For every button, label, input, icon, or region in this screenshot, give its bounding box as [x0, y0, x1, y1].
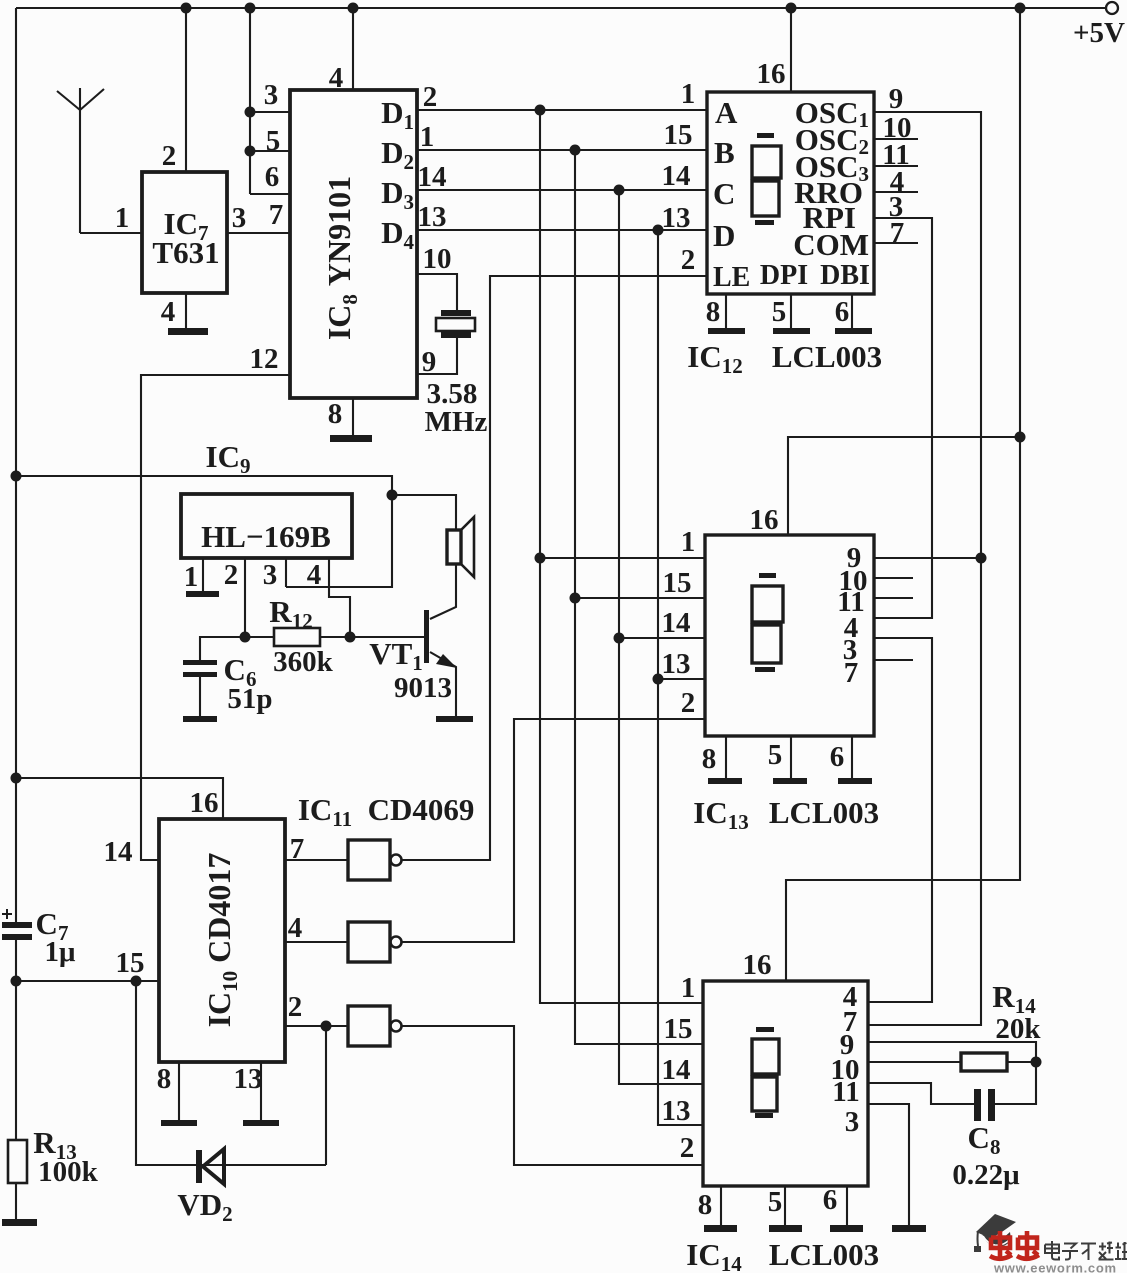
svg-text:9: 9 [422, 346, 437, 378]
svg-text:15: 15 [664, 119, 693, 151]
svg-text:8: 8 [157, 1063, 172, 1095]
svg-text:3: 3 [232, 202, 247, 234]
svg-text:MHz: MHz [425, 406, 488, 438]
svg-text:15: 15 [663, 567, 692, 599]
svg-text:14: 14 [662, 1054, 691, 1086]
svg-text:14: 14 [662, 607, 691, 639]
svg-text:3: 3 [264, 79, 279, 111]
svg-text:www.eeworm.com: www.eeworm.com [993, 1261, 1117, 1273]
svg-text:4: 4 [288, 912, 303, 944]
svg-text:2: 2 [288, 991, 303, 1023]
svg-text:16: 16 [190, 787, 219, 819]
svg-text:1: 1 [681, 526, 696, 558]
svg-text:DBI: DBI [820, 260, 870, 291]
svg-text:6: 6 [835, 296, 850, 328]
svg-text:11: 11 [832, 1076, 859, 1108]
svg-text:16: 16 [743, 949, 772, 981]
svg-text:13: 13 [662, 1095, 691, 1127]
svg-text:LCL003: LCL003 [769, 795, 879, 830]
svg-text:LE: LE [713, 262, 750, 293]
svg-text:10: 10 [423, 243, 452, 275]
svg-text:2: 2 [680, 1132, 695, 1164]
svg-text:A: A [715, 95, 738, 130]
svg-text:2: 2 [224, 559, 239, 591]
svg-text:4: 4 [307, 559, 322, 591]
svg-text:3: 3 [845, 1106, 860, 1138]
svg-text:5: 5 [768, 1186, 783, 1218]
svg-text:2: 2 [423, 81, 438, 113]
svg-text:6: 6 [830, 741, 845, 773]
svg-text:1: 1 [681, 78, 696, 110]
svg-text:2: 2 [162, 140, 177, 172]
svg-text:IC8 YN9101: IC8 YN9101 [321, 176, 362, 340]
svg-text:13: 13 [234, 1063, 263, 1095]
svg-text:LCL003: LCL003 [772, 339, 882, 374]
svg-text:2: 2 [681, 687, 696, 719]
svg-text:CD4069: CD4069 [368, 792, 475, 827]
svg-text:1: 1 [184, 561, 199, 593]
svg-text:7: 7 [844, 657, 859, 689]
svg-text:15: 15 [664, 1013, 693, 1045]
svg-text:12: 12 [250, 343, 279, 375]
svg-text:9: 9 [889, 83, 904, 115]
svg-text:5: 5 [772, 296, 787, 328]
svg-text:0.22μ: 0.22μ [952, 1159, 1020, 1191]
svg-text:7: 7 [269, 199, 284, 231]
svg-text:4: 4 [329, 62, 344, 94]
svg-text:15: 15 [116, 947, 145, 979]
svg-text:13: 13 [662, 202, 691, 234]
svg-text:1: 1 [681, 972, 696, 1004]
svg-text:13: 13 [662, 648, 691, 680]
svg-text:LCL003: LCL003 [769, 1237, 879, 1272]
svg-text:8: 8 [702, 743, 717, 775]
svg-text:2: 2 [681, 244, 696, 276]
svg-text:5: 5 [768, 739, 783, 771]
svg-text:1: 1 [420, 121, 435, 153]
svg-text:6: 6 [265, 161, 280, 193]
svg-text:4: 4 [161, 296, 176, 328]
svg-text:8: 8 [706, 296, 721, 328]
svg-text:DPI: DPI [760, 260, 808, 291]
svg-text:IC10 CD4017: IC10 CD4017 [201, 853, 242, 1028]
svg-text:HL−169B: HL−169B [201, 519, 331, 554]
svg-text:B: B [714, 135, 735, 170]
svg-text:9013: 9013 [394, 672, 452, 704]
svg-text:13: 13 [418, 201, 447, 233]
svg-text:8: 8 [698, 1189, 713, 1221]
svg-text:C: C [713, 176, 735, 211]
svg-text:T631: T631 [152, 235, 219, 270]
svg-text:8: 8 [328, 398, 343, 430]
svg-text:3: 3 [263, 559, 278, 591]
svg-text:16: 16 [757, 58, 786, 90]
svg-text:7: 7 [290, 833, 305, 865]
svg-text:5: 5 [266, 125, 281, 157]
svg-text:14: 14 [662, 160, 691, 192]
svg-text:360k: 360k [273, 646, 334, 678]
svg-text:+5V: +5V [1073, 17, 1125, 49]
svg-text:D: D [713, 218, 735, 253]
svg-text:6: 6 [823, 1184, 838, 1216]
svg-text:16: 16 [750, 504, 779, 536]
svg-text:COM: COM [793, 227, 869, 262]
svg-text:14: 14 [104, 836, 133, 868]
svg-text:14: 14 [418, 161, 447, 193]
svg-text:7: 7 [890, 217, 905, 249]
svg-text:1: 1 [115, 202, 130, 234]
